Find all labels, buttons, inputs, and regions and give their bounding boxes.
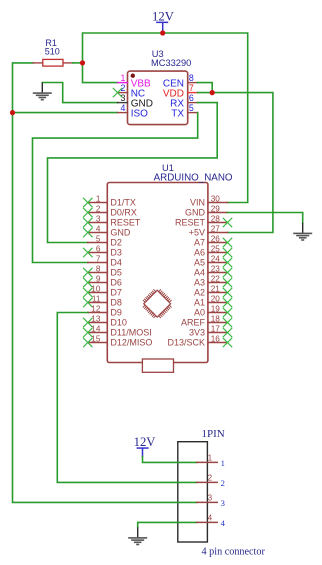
no-connect X on U3 pin 2: [113, 88, 122, 97]
svg-text:19: 19: [211, 305, 221, 314]
svg-text:28: 28: [211, 215, 221, 224]
svg-text:7: 7: [96, 255, 101, 264]
IC U3 MC33290 box: [128, 49, 192, 124]
svg-text:13: 13: [91, 315, 101, 324]
svg-text:1: 1: [208, 453, 212, 462]
svg-text:2: 2: [96, 205, 101, 214]
svg-text:RESET: RESET: [175, 218, 206, 228]
U1 pin 16 D13/SCK (stub + number + name): [167, 335, 227, 348]
svg-text:ARDUINO_NANO: ARDUINO_NANO: [154, 172, 233, 183]
no-connect X on U1 pin 15: [84, 338, 93, 347]
no-connect X on U1 pin 2: [84, 208, 93, 217]
svg-text:2: 2: [208, 473, 212, 482]
svg-text:AREF: AREF: [181, 318, 206, 328]
no-connect X on U1 pin 24: [223, 258, 232, 267]
ground symbol bottom: [128, 527, 147, 545]
svg-text:D3: D3: [110, 248, 122, 258]
U1 pin 10 D7 (stub + number + name): [88, 285, 122, 298]
svg-text:8: 8: [96, 265, 101, 274]
svg-text:A5: A5: [194, 258, 205, 268]
U1 pin 18 AREF (stub + number + name): [181, 315, 228, 328]
svg-text:D10: D10: [110, 318, 127, 328]
node R1 right junction dot: [80, 60, 85, 65]
connector J1 4-pin box: [178, 428, 266, 558]
ground symbol right of U1: [293, 223, 312, 241]
svg-text:4 pin connector: 4 pin connector: [202, 547, 266, 558]
wire segment into connector row 3: [178, 501, 197, 503]
svg-text:9: 9: [96, 275, 101, 284]
no-connect X on U1 pin 14: [84, 328, 93, 337]
svg-text:D0/RX: D0/RX: [110, 208, 137, 218]
svg-text:MC33290: MC33290: [151, 58, 191, 68]
no-connect X on U1 pin 13: [84, 318, 93, 327]
U1 pin 7 D4 (stub + number + name): [88, 255, 122, 268]
svg-text:3V3: 3V3: [189, 328, 205, 338]
svg-text:25: 25: [211, 245, 221, 254]
no-connect X on U1 pin 17: [223, 328, 232, 337]
svg-text:A6: A6: [194, 248, 205, 258]
svg-text:22: 22: [211, 275, 221, 284]
U1 pin 22 A3 (stub + number + name): [194, 275, 228, 288]
U1 pin 21 A2 (stub + number + name): [194, 285, 228, 298]
svg-text:1: 1: [96, 195, 101, 204]
wire Arduino D9 to connector pin 2: [57, 313, 197, 483]
wire U3 pin 6 RX to Arduino D2: [48, 103, 218, 243]
wire R1 left to far-left vertical rail: [13, 63, 197, 503]
no-connect X on U1 pin 6: [84, 248, 93, 257]
svg-text:23: 23: [211, 265, 221, 274]
wire U3 pin 5 TX to Arduino D4: [33, 113, 198, 263]
wire U3 pin 7 VDD to Arduino +5V: [197, 93, 273, 233]
wire segment into connector row 4: [178, 521, 197, 523]
svg-text:1: 1: [120, 73, 125, 83]
no-connect X on U1 pin 22: [223, 278, 232, 287]
no-connect X on U1 pin 19: [223, 308, 232, 317]
svg-text:4: 4: [208, 513, 213, 522]
svg-text:17: 17: [211, 325, 221, 334]
svg-text:D2: D2: [110, 238, 122, 248]
svg-text:16: 16: [211, 335, 221, 344]
U3 pin 6 RX (stub + number + name): [170, 93, 197, 109]
svg-text:3: 3: [221, 498, 225, 508]
wire segment into connector row 2: [178, 481, 197, 483]
svg-text:20: 20: [211, 295, 221, 304]
U1 pin 17 3V3 (stub + number + name): [189, 325, 228, 338]
svg-text:1PIN: 1PIN: [202, 428, 225, 440]
U1 pin 6 D3 (stub + number + name): [88, 245, 122, 258]
connector pin 1: [197, 453, 225, 468]
no-connect X on U1 pin 11: [84, 298, 93, 307]
svg-text:5: 5: [189, 103, 194, 113]
no-connect X on U1 pin 18: [223, 318, 232, 327]
svg-text:D8: D8: [110, 298, 122, 308]
U1 pin 15 D12/MISO (stub + number + name): [88, 335, 153, 348]
svg-text:15: 15: [91, 335, 101, 344]
U1 pin 25 A6 (stub + number + name): [194, 245, 228, 258]
svg-text:GND: GND: [110, 228, 130, 238]
12V supply symbol top: [152, 9, 175, 31]
U1 pin 14 D11/MOSI (stub + number + name): [88, 325, 152, 338]
U1 pin 26 A7 (stub + number + name): [194, 235, 228, 248]
svg-text:14: 14: [91, 325, 101, 334]
no-connect X on U1 pin 16: [223, 338, 232, 347]
USB connector drawing at U1 bottom: [142, 359, 173, 372]
svg-text:12V: 12V: [152, 9, 175, 23]
no-connect X on U1 pin 23: [223, 268, 232, 277]
U1 pin 1 D1/TX (stub + number + name): [88, 195, 136, 208]
no-connect X on U1 pin 10: [84, 288, 93, 297]
svg-text:ISO: ISO: [131, 109, 148, 120]
U3 pin 8 CEN (stub + number + name): [163, 73, 198, 89]
12V supply symbol bottom: [134, 435, 157, 457]
svg-text:21: 21: [211, 285, 221, 294]
node 12V top junction dot: [160, 30, 165, 35]
svg-text:27: 27: [211, 225, 221, 234]
svg-text:TX: TX: [171, 109, 184, 120]
svg-text:3: 3: [120, 93, 125, 103]
U3 pin 1 VBB (stub + number + name): [118, 73, 152, 89]
svg-text:A0: A0: [194, 308, 205, 318]
svg-text:12V: 12V: [134, 435, 157, 449]
svg-text:510: 510: [45, 47, 60, 57]
U1 pin 9 D6 (stub + number + name): [88, 275, 122, 288]
U1 pin 27 +5V (stub + number + name): [189, 225, 228, 238]
wire Arduino GND(29) to ground2: [228, 213, 303, 223]
svg-text:4: 4: [221, 518, 226, 528]
svg-text:6: 6: [96, 245, 101, 254]
IC U1 ARDUINO_NANO box: [107, 163, 233, 363]
svg-text:29: 29: [211, 205, 221, 214]
svg-text:D7: D7: [110, 288, 122, 298]
svg-text:3: 3: [208, 493, 212, 502]
svg-text:18: 18: [211, 315, 221, 324]
U3 pin 3 GND (stub + number + name): [118, 93, 153, 109]
U1 pin 23 A4 (stub + number + name): [194, 265, 228, 278]
U3 pin 7 VDD (stub + number + name): [163, 83, 198, 99]
U1 pin 30 VIN (stub + number + name): [190, 195, 228, 208]
wire connector pin 4 to ground3: [138, 522, 197, 527]
svg-text:RESET: RESET: [110, 218, 141, 228]
U1 pin 29 GND (stub + number + name): [185, 205, 228, 218]
svg-text:D1/TX: D1/TX: [110, 198, 136, 208]
connector pin 4: [197, 513, 226, 528]
U1 pin 11 D8 (stub + number + name): [88, 295, 122, 308]
svg-text:4: 4: [96, 225, 101, 234]
no-connect X on U1 pin 8: [84, 268, 93, 277]
U3 pin 4 ISO (stub + number + name): [118, 103, 149, 119]
svg-text:30: 30: [211, 195, 221, 204]
no-connect X on U1 pin 21: [223, 288, 232, 297]
svg-text:10: 10: [91, 285, 101, 294]
svg-text:7: 7: [189, 83, 194, 93]
svg-text:D11/MOSI: D11/MOSI: [110, 328, 151, 338]
svg-text:D12/MISO: D12/MISO: [110, 338, 152, 348]
no-connect X on U1 pin 3: [84, 218, 93, 227]
svg-text:12: 12: [91, 305, 101, 314]
wire ISO branch to U3 pin 4: [13, 112, 118, 114]
wire R1 junction down to U3 pin 1 VBB: [83, 63, 118, 83]
U1 pin 20 A1 (stub + number + name): [194, 295, 228, 308]
svg-text:26: 26: [211, 235, 221, 244]
svg-text:A2: A2: [194, 288, 205, 298]
no-connect X on U1 pin 25: [223, 248, 232, 257]
wire ground1 to U3 pin 3 GND: [42, 83, 117, 103]
no-connect X on U1 pin 28: [223, 218, 232, 227]
ground symbol near U3: [33, 83, 52, 101]
svg-text:D5: D5: [110, 268, 122, 278]
no-connect X on U1 pin 4: [84, 228, 93, 237]
svg-text:+5V: +5V: [189, 228, 205, 238]
QFP chip drawing inside U1: [140, 286, 175, 321]
wire 12V bottom to connector pin 1: [143, 457, 197, 463]
U1 pin 2 D0/RX (stub + number + name): [88, 205, 137, 218]
no-connect X on U1 pin 26: [223, 238, 232, 247]
U1 pin 19 A0 (stub + number + name): [194, 305, 228, 318]
svg-text:2: 2: [221, 478, 225, 488]
svg-text:A7: A7: [194, 238, 205, 248]
svg-text:3: 3: [96, 215, 101, 224]
svg-text:6: 6: [189, 93, 194, 103]
svg-text:GND: GND: [185, 208, 206, 218]
svg-text:D6: D6: [110, 278, 122, 288]
svg-text:D9: D9: [110, 308, 122, 318]
node ISO junction dot on left rail: [10, 110, 15, 115]
U1 pin 13 D10 (stub + number + name): [88, 315, 127, 328]
svg-text:A1: A1: [194, 298, 205, 308]
node VDD junction dot: [210, 90, 215, 95]
U1 pin 28 RESET (stub + number + name): [175, 215, 228, 228]
svg-text:A4: A4: [194, 268, 205, 278]
svg-text:11: 11: [92, 295, 101, 304]
wire U3 pin 8 CEN to VDD net: [197, 83, 212, 93]
wire segment into connector row 1: [178, 461, 197, 463]
U1 pin 12 D9 (stub + number + name): [88, 305, 122, 318]
svg-text:1: 1: [221, 458, 225, 468]
U1 pin 5 D2 (stub + number + name): [88, 235, 122, 248]
svg-text:24: 24: [211, 255, 221, 264]
U1 pin 4 GND (stub + number + name): [88, 225, 131, 238]
svg-text:D4: D4: [110, 258, 122, 268]
U1 pin 8 D5 (stub + number + name): [88, 265, 122, 278]
connector pin 2: [197, 473, 225, 488]
connector pin 3: [197, 493, 225, 508]
resistor R1: [33, 38, 82, 66]
no-connect X on U1 pin 20: [223, 298, 232, 307]
svg-text:8: 8: [189, 73, 194, 83]
U1 pin 24 A5 (stub + number + name): [194, 255, 228, 268]
U1 pin 3 RESET (stub + number + name): [88, 215, 141, 228]
svg-text:D13/SCK: D13/SCK: [167, 338, 205, 348]
svg-text:VIN: VIN: [190, 198, 205, 208]
no-connect X on U1 pin 9: [84, 278, 93, 287]
svg-text:5: 5: [96, 235, 101, 244]
wire 12V top net: vertical from R1 junction up: [83, 33, 248, 203]
U3 pin 2 NC (stub + number + name): [118, 83, 146, 99]
no-connect X on U1 pin 1: [84, 198, 93, 207]
svg-text:4: 4: [120, 103, 125, 113]
svg-text:A3: A3: [194, 278, 205, 288]
U3 pin 5 TX (stub + number + name): [171, 103, 197, 119]
